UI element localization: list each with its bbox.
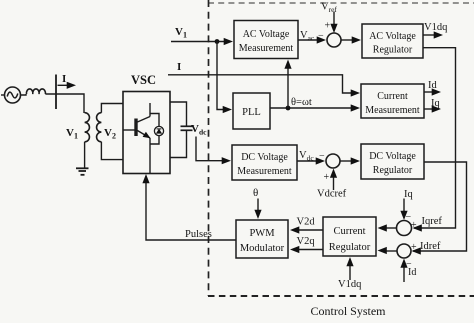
svg-text:Id: Id: [408, 267, 416, 278]
wire Iq output: [424, 98, 441, 113]
wire V2d Current Regulator to PWM: [290, 217, 323, 234]
svg-text:Iq: Iq: [431, 98, 440, 109]
AC source G1: [1, 87, 26, 103]
wire V1: [171, 38, 233, 45]
box Current Measurement: [361, 84, 424, 118]
box DC Voltage Regulator: [361, 144, 424, 179]
wire S4 to Current Regulator: [378, 247, 398, 254]
svg-text:V1dq: V1dq: [338, 279, 362, 290]
control system dashed boundary bottom: [208, 295, 474, 297]
box PLL: [233, 93, 270, 129]
wire V2q Current Regulator to PWM: [290, 236, 323, 253]
svg-text:DC Voltage: DC Voltage: [241, 152, 288, 163]
summing junction S3: [397, 212, 418, 236]
theta input to PWM Modulator: [253, 187, 262, 219]
svg-text:+: +: [324, 172, 330, 183]
svg-text:Current: Current: [333, 226, 365, 237]
control system dashed boundary top: [208, 2, 474, 4]
svg-text:Iq: Iq: [404, 189, 413, 200]
svg-text:+: +: [411, 242, 417, 253]
box Current Regulator: [323, 217, 376, 256]
wire Vdc to summing junction S2: [297, 150, 325, 165]
box AC Voltage Measurement: [234, 21, 298, 59]
svg-text:DC Voltage: DC Voltage: [369, 151, 416, 162]
svg-text:Measurement: Measurement: [239, 43, 294, 54]
svg-text:Current: Current: [377, 91, 408, 102]
wire I to current measurement: [168, 75, 360, 97]
transformer T1 secondary winding: [97, 113, 102, 142]
Idref arrowhead into S4: [412, 247, 421, 254]
inductor L1: [26, 89, 45, 94]
Vdc sense wire: [196, 137, 231, 165]
box PWM Modulator: [236, 220, 288, 258]
VSC converter block: [123, 92, 170, 174]
current label I with arrow: [58, 73, 77, 89]
wire AC Voltage Regulator to Iqref: [414, 48, 456, 228]
control system dashed boundary left: [208, 0, 210, 296]
svg-text:PWM: PWM: [249, 228, 275, 239]
svg-text:Regulator: Regulator: [373, 45, 413, 56]
wire theta to AC Voltage Measurement: [284, 60, 291, 109]
wire V1 to PLL: [217, 42, 232, 114]
transformer T1 primary winding: [85, 113, 90, 142]
svg-text:AC Voltage: AC Voltage: [243, 29, 290, 40]
IGBT Q1: [123, 103, 151, 173]
summing junction S2: [324, 154, 341, 183]
transformer secondary leads: [101, 104, 123, 113]
wire Id output: [424, 80, 441, 96]
bus bar B1: [55, 75, 57, 110]
wire DC Voltage Regulator to Idref: [413, 162, 467, 251]
svg-text:−: −: [318, 31, 324, 42]
ground: [76, 142, 89, 175]
svg-text:Vdcref: Vdcref: [317, 189, 347, 200]
svg-text:Idref: Idref: [420, 241, 441, 252]
svg-text:V1dq: V1dq: [424, 22, 448, 33]
wire V1dq into Current Regulator: [338, 257, 362, 290]
svg-text:I: I: [62, 73, 66, 85]
svg-text:AC Voltage: AC Voltage: [369, 31, 416, 42]
wire S2 to DC Voltage Regulator: [340, 157, 360, 164]
svg-text:θ=ωt: θ=ωt: [291, 97, 312, 108]
wire Iq into S3: [400, 189, 413, 220]
Iqref arrowhead into S3: [413, 224, 422, 231]
svg-text:Control System: Control System: [310, 304, 386, 318]
wire theta=wt PLL to Current Measurement: [270, 97, 360, 112]
svg-text:Regulator: Regulator: [329, 242, 371, 253]
wire S3 to Current Regulator: [378, 224, 397, 231]
box DC Voltage Measurement: [232, 145, 297, 180]
wire V1dq output: [423, 22, 448, 39]
svg-text:I: I: [177, 61, 181, 73]
wire Vac to summing junction S1: [298, 30, 326, 44]
svg-text:+: +: [411, 220, 417, 231]
svg-text:Iqref: Iqref: [422, 216, 443, 227]
summing junction S1: [325, 21, 342, 48]
svg-text:VSC: VSC: [131, 73, 156, 87]
svg-text:−: −: [319, 151, 325, 162]
svg-text:Modulator: Modulator: [240, 243, 285, 254]
svg-text:Pulses: Pulses: [185, 229, 212, 240]
svg-text:+: +: [325, 21, 331, 32]
svg-text:Measurement: Measurement: [237, 166, 292, 177]
capacitor C1: [181, 125, 193, 127]
svg-text:V2d: V2d: [297, 217, 316, 228]
capacitor C1 leads: [170, 102, 187, 126]
wire inductor to transformer: [45, 94, 84, 113]
svg-text:PLL: PLL: [242, 107, 261, 118]
svg-text:V2q: V2q: [297, 236, 316, 247]
summing junction S4: [397, 242, 417, 270]
svg-text:θ: θ: [253, 187, 258, 199]
wire Id into S4: [400, 259, 416, 283]
wire Vref into S1: [330, 12, 337, 34]
wire Vdcref into S2: [317, 169, 347, 200]
svg-text:Measurement: Measurement: [365, 105, 420, 116]
svg-text:Id: Id: [428, 80, 437, 91]
pulses wire: [142, 174, 236, 240]
wire S1 to AC Voltage Regulator: [341, 36, 361, 43]
svg-text:Regulator: Regulator: [373, 165, 413, 176]
box AC Voltage Regulator: [362, 24, 423, 58]
freewheel diode D1: [150, 114, 164, 145]
